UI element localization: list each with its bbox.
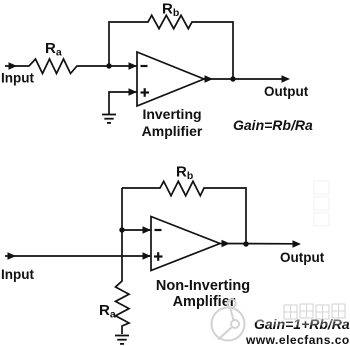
svg-text:Amplifier: Amplifier (142, 123, 203, 139)
svg-text:Ra: Ra (45, 40, 62, 59)
svg-text:Inverting: Inverting (142, 106, 201, 122)
svg-text:Output: Output (280, 250, 325, 265)
svg-text:Rb: Rb (162, 1, 179, 20)
svg-text:Non-Inverting: Non-Inverting (156, 278, 250, 294)
svg-text:Output: Output (264, 84, 309, 99)
svg-text:Ra: Ra (99, 302, 116, 321)
svg-text:Rb: Rb (176, 164, 193, 183)
svg-text:www.elecfans.com: www.elecfans.com (245, 333, 350, 346)
svg-text:Input: Input (1, 267, 34, 282)
svg-text:Input: Input (1, 71, 34, 86)
svg-text:Gain=Rb/Ra: Gain=Rb/Ra (233, 117, 313, 133)
